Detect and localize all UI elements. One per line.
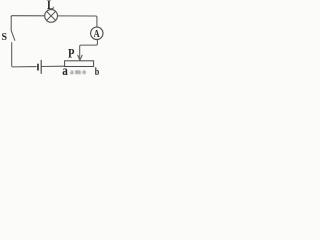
svg-text:L: L: [47, 0, 54, 12]
svg-text:b: b: [95, 66, 100, 75]
rheostat P box: [65, 61, 94, 67]
wire top-right horizontal: [58, 16, 97, 27]
rheostat slider arrowhead: [78, 55, 83, 60]
switch S blade: [11, 31, 15, 41]
svg-text:a: a: [62, 64, 68, 75]
svg-text:P: P: [68, 46, 75, 61]
wire left vertical lower: [12, 43, 36, 67]
lamp cross: [47, 11, 56, 20]
battery short thick plate: [37, 64, 39, 71]
wire bottom battery to rheostat: [42, 65, 65, 67]
svg-text:amo: amo: [70, 68, 87, 75]
battery long thin plate: [40, 60, 42, 74]
wire left vertical upper: [10, 17, 12, 30]
wire top-left horizontal: [11, 16, 45, 17]
wire ammeter to slider corner: [80, 40, 98, 59]
ammeter A circle: [91, 27, 103, 39]
svg-text:S: S: [2, 31, 8, 43]
lamp L circle: [45, 10, 58, 23]
svg-text:A: A: [94, 29, 100, 40]
